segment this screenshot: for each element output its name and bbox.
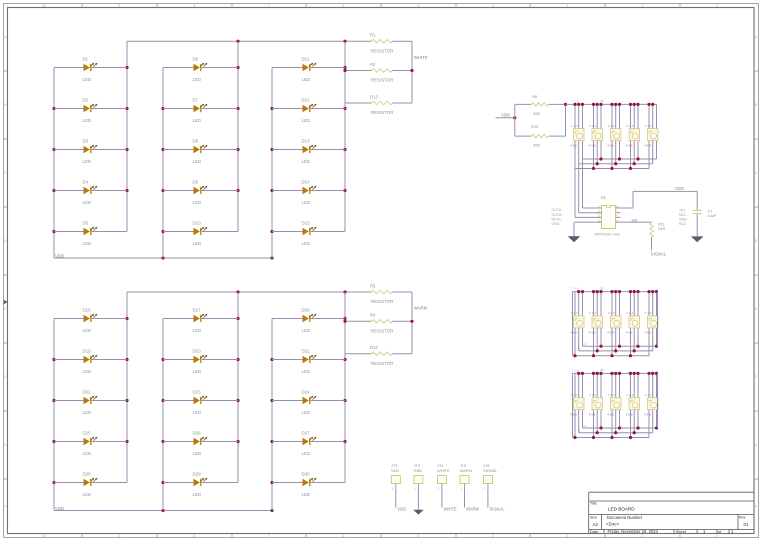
LED D22 xyxy=(54,390,127,415)
svg-text:LED: LED xyxy=(83,241,92,246)
svg-text:7 1 3: 7 1 3 xyxy=(572,287,579,291)
wire output fan row 2 (array 11) xyxy=(579,432,653,434)
LED D3 xyxy=(54,139,127,164)
svg-text:VDD: VDD xyxy=(55,253,64,258)
svg-text:D22: D22 xyxy=(83,390,92,395)
junction dots anode bus column 1 (top group) xyxy=(52,107,55,110)
svg-text:2 1 3: 2 1 3 xyxy=(645,393,652,397)
svg-text:GND: GND xyxy=(679,217,687,221)
transistor pack Q8 xyxy=(607,311,621,334)
LED D27 xyxy=(272,431,345,456)
svg-text:D30: D30 xyxy=(302,472,311,477)
svg-text:5: 5 xyxy=(418,534,420,538)
junction dots cathode bus column 2 (top group) xyxy=(236,66,239,69)
svg-text:LED: LED xyxy=(302,369,311,374)
svg-text:RESISTOR: RESISTOR xyxy=(371,110,393,115)
wire left wrap (array 11) xyxy=(572,373,574,437)
wire R8/R10 right bus xyxy=(565,104,567,136)
wire WARM bus xyxy=(411,292,413,354)
LED D17 xyxy=(163,308,238,333)
svg-text:26: 26 xyxy=(600,99,604,103)
LED D2 xyxy=(54,98,127,123)
LED D24 xyxy=(272,390,345,415)
transistor pack Q13 xyxy=(607,393,621,416)
wire left wrap (array 6) xyxy=(572,292,574,356)
svg-text:WHITE: WHITE xyxy=(444,506,457,511)
LED D26 xyxy=(163,431,238,456)
svg-text:OUTA: OUTA xyxy=(552,208,562,212)
resistor R12 xyxy=(345,345,412,366)
wire WHITE bus xyxy=(411,41,413,103)
svg-text:D2: D2 xyxy=(83,98,89,103)
transistor pack Q10 xyxy=(644,311,658,334)
wire U1 pin 5 to R11 xyxy=(621,221,652,223)
svg-text:LED: LED xyxy=(193,492,202,497)
svg-text:LED: LED xyxy=(193,328,202,333)
junction dots cathode rail (top group) xyxy=(236,40,239,43)
svg-text:LED: LED xyxy=(83,492,92,497)
transistor pack Q15 xyxy=(644,393,658,416)
svg-text:LED: LED xyxy=(83,77,92,82)
svg-text:6: 6 xyxy=(343,4,345,8)
svg-text:LED: LED xyxy=(302,451,311,456)
svg-text:5: 5 xyxy=(418,4,420,8)
wire bottom pin verticals (array 11) xyxy=(575,410,657,438)
resistor R3 xyxy=(370,283,412,304)
svg-text:1: 1 xyxy=(716,4,718,8)
svg-text:D27: D27 xyxy=(302,431,311,436)
svg-text:TP1: TP1 xyxy=(679,208,685,212)
svg-text:VDD: VDD xyxy=(675,186,684,191)
resistor R4 xyxy=(345,313,412,334)
svg-text:A2: A2 xyxy=(593,522,599,527)
svg-text:LED: LED xyxy=(193,200,202,205)
svg-text:8: 8 xyxy=(194,4,196,8)
svg-text:D6: D6 xyxy=(193,57,199,62)
svg-text:DIP/SOIC-4x2: DIP/SOIC-4x2 xyxy=(595,232,621,237)
ground (C1) xyxy=(691,236,704,242)
wire output fan row 2 (array 6) xyxy=(579,350,653,352)
junction dot rail / R8 xyxy=(564,103,567,106)
svg-text:2 1 3: 2 1 3 xyxy=(589,124,596,128)
svg-text:OUTB: OUTB xyxy=(552,213,563,217)
svg-text:D18: D18 xyxy=(302,308,311,313)
svg-text:2 1 3: 2 1 3 xyxy=(645,311,652,315)
LED D8 xyxy=(163,139,238,164)
svg-text:2: 2 xyxy=(642,4,644,8)
ground (JT3) xyxy=(413,510,424,515)
svg-text:D16: D16 xyxy=(83,308,92,313)
svg-text:D24: D24 xyxy=(302,390,311,395)
wire cathode bus column 1 (top group) xyxy=(126,41,128,231)
svg-text:LED: LED xyxy=(83,451,92,456)
svg-text:4 5 6: 4 5 6 xyxy=(607,143,614,147)
wire VDD rail (top group) xyxy=(54,257,272,259)
svg-text:4 5 6: 4 5 6 xyxy=(626,331,633,335)
svg-text:D10: D10 xyxy=(193,221,202,226)
LED D30 xyxy=(272,472,345,497)
wire top pin verticals (array 11) xyxy=(575,373,657,397)
junction dot VDD feed xyxy=(513,116,516,119)
LED D18 xyxy=(272,308,345,333)
svg-text:LED: LED xyxy=(193,369,202,374)
svg-text:nc: nc xyxy=(584,342,588,346)
svg-text:G: G xyxy=(4,443,7,447)
svg-text:D13: D13 xyxy=(302,139,311,144)
svg-text:2 1 3: 2 1 3 xyxy=(589,393,596,397)
svg-text:VDD: VDD xyxy=(391,468,399,473)
connector JT2 xyxy=(391,463,400,490)
svg-text:Title: Title xyxy=(590,502,597,506)
svg-text:4 5 6: 4 5 6 xyxy=(589,143,596,147)
svg-text:8: 8 xyxy=(194,534,196,538)
svg-text:4 5 6: 4 5 6 xyxy=(644,143,651,147)
resistor R1 xyxy=(370,33,412,54)
LED D5 xyxy=(54,221,127,246)
ground (U1 pin 4) xyxy=(568,236,581,242)
svg-text:26: 26 xyxy=(600,286,604,290)
wire R8/R10 left bus xyxy=(514,104,516,136)
transistor pack Q1 xyxy=(570,124,584,147)
wire JT4 to node WHITE xyxy=(441,489,443,508)
svg-text:2 1 3: 2 1 3 xyxy=(571,393,578,397)
transistor pack Q5 xyxy=(644,124,658,147)
svg-text:3: 3 xyxy=(567,534,569,538)
wire output fan row 3 (array 6) xyxy=(573,355,650,357)
svg-text:D26: D26 xyxy=(193,431,202,436)
svg-text:2 1 3: 2 1 3 xyxy=(571,311,578,315)
svg-text:9: 9 xyxy=(119,534,121,538)
LED D19 xyxy=(54,349,127,374)
resistor R13 xyxy=(345,94,412,115)
svg-text:1: 1 xyxy=(716,534,718,538)
resistor R11 xyxy=(650,222,666,251)
svg-text:D17: D17 xyxy=(193,308,202,313)
wire fan to U1 pin 1 xyxy=(582,159,584,208)
LED D9 xyxy=(163,180,238,205)
svg-text:SIG: SIG xyxy=(632,219,638,223)
wire fan to U1 pin 3 xyxy=(574,169,576,218)
resistor R8 xyxy=(515,94,566,116)
svg-text:Friday, November 29, 2024: Friday, November 29, 2024 xyxy=(608,529,659,534)
svg-text:LED: LED xyxy=(302,241,311,246)
svg-text:RESISTOR: RESISTOR xyxy=(371,48,393,53)
junction dots VDD rail (bottom group) xyxy=(161,509,164,512)
wire U1 pin 8 to VDD xyxy=(621,207,634,209)
connector JT5 xyxy=(460,463,472,490)
svg-text:R12: R12 xyxy=(370,345,378,350)
IC U1 DIP/SOIC-4x2 xyxy=(595,195,621,236)
svg-text:4 5 6: 4 5 6 xyxy=(589,331,596,335)
wire cathode bus column 3 (top group) xyxy=(344,41,346,231)
wire JT3 to ground xyxy=(417,489,419,510)
wire cathode rail (top group) xyxy=(127,40,372,42)
svg-text:4 5 6: 4 5 6 xyxy=(607,331,614,335)
svg-text:LED: LED xyxy=(83,200,92,205)
svg-text:4 5 6: 4 5 6 xyxy=(644,412,651,416)
junction dots anode bus column 1 (bottom group) xyxy=(52,358,55,361)
svg-text:Date:: Date: xyxy=(590,529,600,534)
svg-text:LED: LED xyxy=(302,200,311,205)
junction dots output fan (array 1) xyxy=(592,157,640,170)
svg-text:2 1 3: 2 1 3 xyxy=(608,124,615,128)
connector JT4 xyxy=(437,463,450,490)
svg-text:LED: LED xyxy=(302,159,311,164)
svg-text:4 5 6: 4 5 6 xyxy=(570,143,577,147)
svg-text:WHITE: WHITE xyxy=(437,468,450,473)
svg-text:36K: 36K xyxy=(533,111,540,116)
svg-text:4 5 6: 4 5 6 xyxy=(626,143,633,147)
svg-text:D21: D21 xyxy=(302,349,311,354)
wire top pin verticals (array 6) xyxy=(575,292,657,316)
junction dots output fan (array 6) xyxy=(573,345,658,358)
svg-text:LED: LED xyxy=(302,118,311,123)
svg-text:D19: D19 xyxy=(83,349,92,354)
svg-text:WARM: WARM xyxy=(414,306,428,311)
transistor pack Q4 xyxy=(626,124,640,147)
wire output fan row 3 (array 1) xyxy=(575,168,649,170)
svg-text:SIGNAL: SIGNAL xyxy=(651,251,667,256)
wire JT2 to node VDD xyxy=(395,489,397,508)
wire cathode rail (bottom group) xyxy=(127,291,372,293)
svg-text:D15: D15 xyxy=(302,221,311,226)
junction dots drive rail (array 11) xyxy=(577,372,658,375)
svg-text:4 5 6: 4 5 6 xyxy=(589,412,596,416)
svg-text:2 1 3: 2 1 3 xyxy=(626,124,633,128)
svg-text:4: 4 xyxy=(492,534,494,538)
svg-text:WARM: WARM xyxy=(460,468,472,473)
svg-text:RESISTOR: RESISTOR xyxy=(371,78,393,83)
svg-text:2: 2 xyxy=(642,534,644,538)
wire cathode bus column 2 (bottom group) xyxy=(237,292,239,483)
svg-text:OUTC: OUTC xyxy=(552,217,563,221)
transistor pack Q7 xyxy=(589,311,603,334)
LED D16 xyxy=(54,308,127,333)
svg-text:LED: LED xyxy=(83,159,92,164)
wire output fan row 3 (array 11) xyxy=(573,437,650,439)
LED D15 xyxy=(272,221,345,246)
wire bottom pin verticals (array 6) xyxy=(575,328,657,356)
wire anode bus column 3 (top group) xyxy=(271,68,273,259)
svg-text:WARM: WARM xyxy=(466,506,479,511)
junction dots anode bus column 2 (bottom group) xyxy=(161,358,164,361)
LED D23 xyxy=(163,390,238,415)
svg-text:D14: D14 xyxy=(302,180,311,185)
svg-text:2 1 3: 2 1 3 xyxy=(645,124,652,128)
LED D20 xyxy=(163,349,238,374)
svg-text:2 1 3: 2 1 3 xyxy=(626,393,633,397)
svg-text:01: 01 xyxy=(744,522,749,527)
svg-text:LED: LED xyxy=(302,328,311,333)
svg-text:2 1 3: 2 1 3 xyxy=(589,311,596,315)
transistor pack Q3 xyxy=(607,124,621,147)
svg-text:D28: D28 xyxy=(83,472,92,477)
svg-text:R10: R10 xyxy=(531,124,539,129)
wire anode bus column 2 (top group) xyxy=(162,68,164,259)
svg-text:LED: LED xyxy=(302,410,311,415)
junction dots cathode bus column 1 (top group) xyxy=(125,66,128,69)
svg-text:D25: D25 xyxy=(83,431,92,436)
wire output fan row 1 (array 6) xyxy=(583,345,658,347)
junction dots drive rail (array 6) xyxy=(577,290,658,293)
svg-text:D8: D8 xyxy=(193,139,199,144)
svg-text:D11: D11 xyxy=(302,57,310,62)
LED D13 xyxy=(272,139,345,164)
svg-text:R4: R4 xyxy=(370,313,376,318)
svg-text:7 1 3: 7 1 3 xyxy=(572,99,579,103)
svg-text:D20: D20 xyxy=(193,349,202,354)
svg-text:RESISTOR: RESISTOR xyxy=(371,299,393,304)
resistor R10 xyxy=(515,124,566,148)
svg-text:7 1 3: 7 1 3 xyxy=(572,368,579,372)
svg-text:9: 9 xyxy=(119,4,121,8)
svg-text:D4: D4 xyxy=(83,180,89,185)
wire cathode bus column 1 (bottom group) xyxy=(126,292,128,483)
junction dots drive rail (array 1) xyxy=(573,103,654,106)
LED D6 xyxy=(163,57,238,82)
svg-text:R8: R8 xyxy=(532,94,538,99)
transistor pack Q12 xyxy=(589,393,603,416)
wire right wrap (array 6) xyxy=(657,292,659,347)
svg-text:Document Number: Document Number xyxy=(607,515,643,520)
LED D1 xyxy=(54,57,127,82)
LED D14 xyxy=(272,180,345,205)
svg-text:LED: LED xyxy=(83,118,92,123)
svg-text:4 5 6: 4 5 6 xyxy=(570,412,577,416)
svg-text:LED: LED xyxy=(83,328,92,333)
transistor pack Q6 xyxy=(570,311,584,334)
wire anode bus column 2 (bottom group) xyxy=(162,319,164,511)
LED D28 xyxy=(54,472,127,497)
svg-text:LED: LED xyxy=(83,410,92,415)
svg-text:Rev: Rev xyxy=(739,516,746,520)
junction dot resistor bus (bottom group) xyxy=(343,320,346,323)
svg-text:WHITE: WHITE xyxy=(414,55,428,60)
wire drive rail (array 1) xyxy=(566,103,657,105)
svg-text:2 1 3: 2 1 3 xyxy=(626,311,633,315)
LED D29 xyxy=(163,472,238,497)
svg-text:R13: R13 xyxy=(370,94,378,99)
wire drive rail (array 6) xyxy=(573,291,658,293)
svg-text:D3: D3 xyxy=(83,139,89,144)
svg-text:GND: GND xyxy=(552,222,560,226)
wire drive rail (array 11) xyxy=(573,372,658,374)
svg-text:GND: GND xyxy=(414,468,423,473)
svg-text:Sheet: Sheet xyxy=(676,529,687,534)
junction dots cathode bus column 2 (bottom group) xyxy=(236,317,239,320)
svg-text:36K: 36K xyxy=(533,143,540,148)
wire output fan row 1 (array 1) xyxy=(583,158,657,160)
svg-text:F: F xyxy=(755,375,757,379)
svg-text:R3: R3 xyxy=(370,283,376,288)
wire anode bus column 3 (bottom group) xyxy=(271,319,273,511)
junction dot resistor bus (top group) xyxy=(343,69,346,72)
svg-text:4 5 6: 4 5 6 xyxy=(644,331,651,335)
wire output fan row 1 (array 11) xyxy=(583,427,658,429)
LED D21 xyxy=(272,349,345,374)
svg-text:26: 26 xyxy=(600,368,604,372)
svg-text:RESISTOR: RESISTOR xyxy=(371,361,393,366)
svg-text:VDD: VDD xyxy=(397,506,406,511)
svg-text:LED: LED xyxy=(193,410,202,415)
junction dots anode bus column 3 (top group) xyxy=(270,107,273,110)
svg-text:D29: D29 xyxy=(193,472,202,477)
wire bottom pin verticals (array 1) xyxy=(575,141,657,169)
junction dots cathode bus column 1 (bottom group) xyxy=(125,317,128,320)
svg-text:LED: LED xyxy=(193,159,202,164)
svg-text:3: 3 xyxy=(567,4,569,8)
connector JT3 xyxy=(414,463,423,490)
svg-text:4: 4 xyxy=(492,4,494,8)
transistor pack Q11 xyxy=(570,393,584,416)
wire cathode bus column 2 (top group) xyxy=(237,41,239,231)
svg-text:10: 10 xyxy=(42,534,46,538)
wire JT5 to node WARM xyxy=(464,489,466,508)
svg-text:NC1: NC1 xyxy=(679,213,686,217)
svg-text:7: 7 xyxy=(268,534,270,538)
svg-text:VDD: VDD xyxy=(55,506,64,511)
svg-text:U1: U1 xyxy=(601,195,607,200)
transistor pack Q2 xyxy=(589,124,603,147)
LED D11 xyxy=(272,57,345,82)
svg-text:Size: Size xyxy=(590,516,597,520)
svg-text:SIGNAL: SIGNAL xyxy=(483,468,498,473)
svg-text:7: 7 xyxy=(268,4,270,8)
svg-text:LED BOARD: LED BOARD xyxy=(608,507,635,512)
LED D4 xyxy=(54,180,127,205)
svg-text:G: G xyxy=(755,443,758,447)
node VDD (driver feed) xyxy=(496,117,515,119)
wire right wrap (array 11) xyxy=(657,373,659,428)
svg-text:LED: LED xyxy=(193,241,202,246)
svg-text:2 1 3: 2 1 3 xyxy=(608,393,615,397)
junction dots output fan (array 11) xyxy=(573,426,658,439)
transistor pack Q9 xyxy=(626,311,640,334)
resistor R2 xyxy=(345,62,412,83)
LED D25 xyxy=(54,431,127,456)
LED D7 xyxy=(163,98,238,123)
svg-text:LED: LED xyxy=(193,451,202,456)
svg-text:4 5 6: 4 5 6 xyxy=(607,412,614,416)
junction dots anode bus column 2 (top group) xyxy=(161,107,164,110)
LED D12 xyxy=(272,98,345,123)
wire top pin verticals (array 1) xyxy=(575,104,657,128)
wire VDD rail (bottom group) xyxy=(54,510,272,512)
svg-text:RESISTOR: RESISTOR xyxy=(371,329,393,334)
svg-text:D5: D5 xyxy=(83,221,89,226)
junction dots cathode bus column 3 (top group) xyxy=(343,66,346,69)
svg-text:F: F xyxy=(4,375,6,379)
svg-text:nc: nc xyxy=(584,424,588,428)
svg-text:VDD: VDD xyxy=(501,113,510,118)
junction dots cathode bus column 3 (bottom group) xyxy=(343,317,346,320)
svg-text:LED: LED xyxy=(193,77,202,82)
svg-text:24R: 24R xyxy=(658,226,665,231)
svg-text:10: 10 xyxy=(42,4,46,8)
capacitor C1 xyxy=(693,191,717,236)
junction dots anode bus column 3 (bottom group) xyxy=(270,358,273,361)
wire anode bus column 1 (top group) xyxy=(53,68,55,259)
svg-text:SIGNAL: SIGNAL xyxy=(490,506,506,511)
LED D10 xyxy=(163,221,238,246)
svg-text:D23: D23 xyxy=(193,390,202,395)
svg-text:2 1 3: 2 1 3 xyxy=(608,311,615,315)
svg-text:LED: LED xyxy=(302,77,311,82)
wire output fan row 2 (array 1) xyxy=(579,163,653,165)
svg-text:2 1 3: 2 1 3 xyxy=(571,124,578,128)
svg-text:D7: D7 xyxy=(193,98,199,103)
svg-text:D9: D9 xyxy=(193,180,199,185)
